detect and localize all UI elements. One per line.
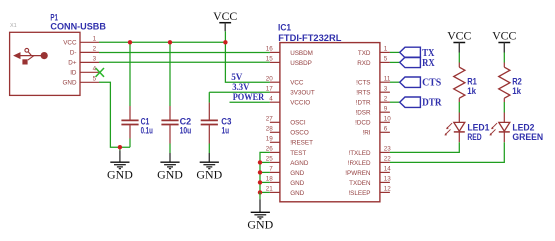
- svg-text:20: 20: [266, 75, 274, 82]
- connector P1 reference designator text: [50, 13, 58, 24]
- svg-text:15: 15: [266, 56, 274, 63]
- svg-text:3V3OUT: 3V3OUT: [290, 90, 315, 97]
- svg-text:1: 1: [384, 46, 388, 53]
- svg-text:VCC: VCC: [63, 40, 77, 47]
- svg-text:27: 27: [266, 115, 274, 122]
- IC1 right pin 11 !CTS: [356, 75, 391, 86]
- wire C3 bottom to GND: [208, 144, 210, 154]
- IC1 left pin 20 VCC: [266, 75, 304, 86]
- svg-text:ID: ID: [70, 70, 77, 77]
- svg-text:VCC: VCC: [492, 29, 516, 43]
- wire LED1 to IC pin 23 TXLED: [390, 142, 459, 152]
- svg-text:0.1u: 0.1u: [141, 126, 153, 136]
- wire GND from P1 pin5 down to C1 bottom: [99, 82, 130, 147]
- svg-text:VCCIO: VCCIO: [290, 100, 310, 107]
- svg-text:CONN-USBB: CONN-USBB: [50, 22, 106, 33]
- svg-text:GND: GND: [290, 180, 304, 187]
- junction C2 top on VCC rail: [168, 40, 172, 44]
- svg-text:USBDM: USBDM: [290, 50, 313, 57]
- svg-text:9: 9: [384, 105, 388, 112]
- capacitor C2 value 10u: [180, 126, 192, 136]
- svg-text:5: 5: [384, 56, 388, 63]
- IC1 right pin 12 !SLEEP: [348, 186, 391, 197]
- svg-text:6: 6: [384, 125, 388, 132]
- ground symbol GND below C3: [196, 153, 222, 181]
- ground symbol GND below C2: [157, 153, 183, 181]
- svg-text:2: 2: [384, 95, 388, 102]
- svg-text:GND: GND: [290, 170, 304, 177]
- wire D- from P1 to IC USBDM: [99, 52, 270, 54]
- svg-text:23: 23: [384, 146, 392, 153]
- capacitor C2 top lead wire: [169, 42, 171, 106]
- IC1 right pin 23 !TXLED: [348, 146, 391, 157]
- svg-text:TXDEN: TXDEN: [349, 180, 371, 187]
- svg-text:19: 19: [266, 135, 274, 142]
- P1 pin 1 VCC: [63, 35, 99, 46]
- capacitor C1 value 0.1u: [141, 126, 153, 136]
- svg-text:2: 2: [93, 46, 97, 53]
- svg-text:!DSR: !DSR: [355, 110, 370, 117]
- svg-text:AGND: AGND: [290, 160, 309, 167]
- svg-text:!RI: !RI: [362, 130, 370, 137]
- IC1 right pin 14 !PWREN: [345, 166, 391, 177]
- P1 pin 4 ID: [70, 65, 99, 76]
- IC1 left pin 25 AGND: [266, 156, 309, 167]
- svg-text:22: 22: [384, 156, 392, 163]
- svg-text:DTR: DTR: [422, 97, 442, 109]
- svg-text:TXD: TXD: [358, 50, 371, 57]
- hierarchical label CTS: [400, 77, 442, 89]
- svg-text:17: 17: [266, 85, 274, 92]
- IC1 left pin 7 GND: [269, 166, 304, 177]
- svg-text:X1: X1: [10, 23, 17, 29]
- resistor R2 1k: [499, 67, 522, 102]
- svg-text:28: 28: [266, 125, 274, 132]
- svg-text:3.3V: 3.3V: [232, 83, 249, 93]
- capacitor C2: [161, 106, 178, 144]
- svg-text:!SLEEP: !SLEEP: [348, 190, 370, 197]
- IC1 left pin 17 3V3OUT: [266, 85, 315, 96]
- svg-text:1k: 1k: [512, 86, 522, 96]
- IC1 left pin 26 TEST: [266, 146, 307, 157]
- IC1 value FTDI-FT232RL text: [278, 33, 341, 44]
- svg-text:RX: RX: [422, 57, 435, 69]
- IC1 left pin 27 OSCI: [266, 115, 306, 126]
- P1 pin 3 D+: [68, 56, 99, 67]
- svg-text:GND: GND: [107, 167, 133, 181]
- svg-text:VCC: VCC: [447, 29, 471, 43]
- diode LED1 RED: [445, 113, 490, 143]
- net label 3.3V: [232, 83, 249, 93]
- svg-text:VCC: VCC: [290, 80, 304, 87]
- junction GND pin 21: [258, 190, 262, 194]
- IC1 left pin 28 OSCO: [266, 125, 309, 136]
- IC1 left pin 16 USBDM: [266, 46, 313, 57]
- capacitor C1: [121, 106, 138, 139]
- svg-text:USBDP: USBDP: [290, 60, 312, 67]
- wire C2 bottom to GND: [169, 144, 171, 154]
- wire C1 bottom to GND junction: [129, 139, 131, 148]
- svg-text:D+: D+: [68, 60, 77, 67]
- wire R2 to LED2: [503, 102, 505, 113]
- wire 3.3V net to IC pin17: [209, 91, 270, 93]
- svg-text:13: 13: [384, 176, 392, 183]
- capacitor C3: [201, 103, 218, 144]
- svg-text:4: 4: [269, 95, 273, 102]
- junction GND pin 7: [258, 170, 262, 174]
- capacitor C1 reference text: [141, 117, 150, 127]
- wire R1 to LED1: [458, 102, 460, 113]
- svg-text:3: 3: [384, 85, 388, 92]
- svg-text:RED: RED: [467, 132, 482, 142]
- wire ground stem below IC: [259, 192, 261, 199]
- wire RXD to RX flag: [390, 61, 400, 63]
- diode LED2 GREEN: [490, 113, 544, 143]
- capacitor C3 top lead wire from 3.3V net: [208, 92, 210, 102]
- svg-text:10u: 10u: [180, 126, 192, 136]
- svg-text:21: 21: [266, 186, 274, 193]
- svg-text:3: 3: [93, 56, 97, 63]
- IC1 right pin 9 !DSR: [355, 105, 389, 116]
- svg-text:26: 26: [266, 146, 274, 153]
- svg-text:11: 11: [384, 75, 391, 82]
- svg-text:!RESET: !RESET: [290, 140, 313, 147]
- svg-text:D-: D-: [70, 50, 77, 57]
- IC1 left pin 19 !RESET: [266, 135, 313, 146]
- IC1 right pin 6 !RI: [362, 125, 389, 136]
- P1 pin 2 D-: [70, 46, 99, 57]
- svg-text:14: 14: [384, 166, 392, 173]
- svg-text:OSCO: OSCO: [290, 130, 309, 137]
- svg-text:FTDI-FT232RL: FTDI-FT232RL: [278, 33, 341, 44]
- svg-text:!PWREN: !PWREN: [345, 170, 371, 177]
- connector P1 CONN-USBB body: [10, 32, 80, 95]
- wire CTS to CTS flag: [390, 81, 400, 83]
- svg-text:CTS: CTS: [422, 77, 441, 89]
- wire VCC drop to 5V pin20: [225, 42, 270, 82]
- svg-text:5V: 5V: [231, 73, 242, 83]
- svg-text:RXD: RXD: [357, 60, 371, 67]
- svg-text:OSCI: OSCI: [290, 120, 306, 127]
- junction GND pin 18: [258, 180, 262, 184]
- wire D+ from P1 to IC USBDP: [99, 61, 270, 63]
- power symbol VCC above R2: [492, 29, 516, 53]
- svg-text:!RXLED: !RXLED: [348, 160, 371, 167]
- svg-text:GND: GND: [157, 167, 183, 181]
- svg-text:18: 18: [266, 176, 274, 183]
- svg-text:25: 25: [266, 156, 274, 163]
- svg-text:7: 7: [269, 166, 273, 173]
- power symbol VCC above R1: [447, 29, 471, 53]
- IC1 right pin 5 RXD: [357, 56, 390, 67]
- net label 5V: [231, 73, 242, 83]
- ground symbol GND below C1: [107, 147, 133, 181]
- connector P1 value CONN-USBB text: [50, 22, 106, 33]
- P1 pin 5 GND: [63, 75, 100, 86]
- svg-text:GND: GND: [247, 217, 273, 231]
- svg-text:VCC: VCC: [213, 9, 237, 23]
- svg-text:TEST: TEST: [290, 150, 306, 157]
- part field X1 text: [10, 23, 17, 29]
- IC1 left pin 15 USBDP: [266, 56, 312, 67]
- ground symbol GND below IC1: [247, 199, 273, 231]
- power symbol VCC top: [213, 9, 237, 31]
- wire VCC to R2: [503, 53, 505, 68]
- resistor R1 1k: [454, 67, 477, 102]
- svg-text:!CTS: !CTS: [356, 80, 370, 87]
- svg-text:POWER: POWER: [233, 93, 265, 103]
- svg-text:GREEN: GREEN: [512, 132, 543, 142]
- capacitor C3 reference text: [221, 117, 231, 127]
- IC1 right pin 22 !RXLED: [348, 156, 392, 167]
- net label POWER: [233, 93, 265, 103]
- IC1 right pin 10 !DCD: [355, 115, 391, 126]
- hierarchical label TX: [400, 47, 435, 59]
- hierarchical label DTR: [400, 97, 443, 109]
- op-amp IC1 FTDI-FT232RL body: [280, 43, 380, 202]
- capacitor C3 value 1u: [222, 126, 230, 136]
- svg-text:GND: GND: [290, 190, 304, 197]
- junction on VCC rail at VCC drop: [223, 40, 227, 44]
- svg-text:!DTR: !DTR: [356, 100, 371, 107]
- junction C1 top on VCC rail: [128, 40, 132, 44]
- USB trident symbol inside P1: [14, 48, 48, 64]
- svg-text:!RTS: !RTS: [356, 90, 370, 97]
- IC1 reference designator text: [278, 23, 292, 34]
- wire VCC rail from P1 pin1 to VCC drop: [99, 41, 225, 43]
- svg-text:12: 12: [384, 186, 392, 193]
- capacitor C1 top lead wire: [129, 42, 131, 106]
- wire VCC symbol stem: [224, 31, 226, 42]
- wire TXD to TX flag: [390, 51, 400, 53]
- IC1 left pin 18 GND: [266, 176, 305, 187]
- svg-text:GND: GND: [63, 80, 77, 87]
- IC1 right pin 3 !RTS: [356, 85, 390, 96]
- svg-text:10: 10: [384, 115, 392, 122]
- svg-text:16: 16: [266, 46, 274, 53]
- junction AGND pin 25: [258, 160, 262, 164]
- svg-text:1k: 1k: [467, 86, 477, 96]
- svg-text:GND: GND: [196, 167, 222, 181]
- wire POWER net to IC pin4: [230, 101, 270, 103]
- IC1 right pin 13 TXDEN: [349, 176, 391, 187]
- svg-text:1: 1: [93, 35, 97, 42]
- hierarchical label RX: [400, 57, 435, 69]
- wire LED2 to IC pin 22 RXLED: [390, 142, 504, 162]
- wire TEST/AGND/GND pins to ground: [260, 152, 270, 192]
- junction at GND below C1: [118, 145, 122, 149]
- IC1 right pin 2 !DTR: [356, 95, 390, 106]
- IC1 left pin 4 VCCIO: [269, 95, 310, 106]
- capacitor C2 reference text: [180, 117, 192, 127]
- wire VCC to R1: [458, 53, 460, 68]
- IC1 right pin 1 TXD: [358, 46, 390, 57]
- no-connect X on P1 pin 4 ID: [96, 68, 104, 77]
- wire DTR to DTR flag: [390, 101, 400, 103]
- svg-text:!DCD: !DCD: [355, 120, 371, 127]
- svg-text:!TXLED: !TXLED: [348, 150, 370, 157]
- IC1 left pin 21 GND: [266, 186, 305, 197]
- svg-text:1u: 1u: [222, 126, 230, 136]
